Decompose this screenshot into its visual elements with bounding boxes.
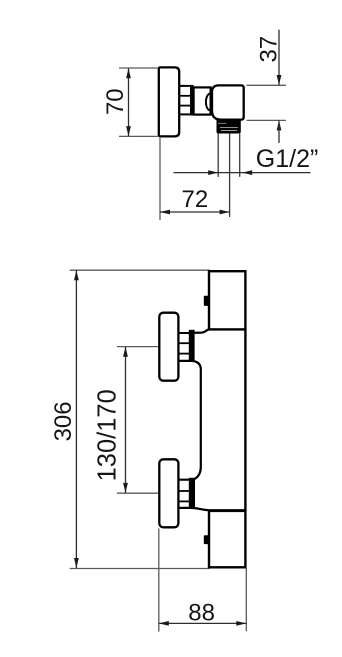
thread white line 1 [218, 122, 227, 124]
dim 88 arrow right [236, 621, 246, 626]
cylinder section [194, 87, 211, 114]
upper handle (front view) [159, 313, 178, 381]
dim 72 arrow left [160, 210, 170, 215]
upper stem rib end bar [189, 330, 195, 362]
dim 70 arrow down [126, 126, 131, 136]
dim 37 line lower [278, 120, 280, 143]
dim 130/170 extension line top [117, 346, 158, 348]
stem rib line 3 [179, 105, 190, 107]
dim 37 arrow down [277, 75, 282, 85]
svg-text:G1/2”: G1/2” [256, 145, 319, 173]
svg-text:37: 37 [256, 36, 283, 63]
dim 70 line [128, 68, 130, 136]
lower stem rib line 3 [179, 500, 189, 502]
upper stem rib line 1 [179, 332, 189, 334]
dim 72 extension line left [159, 138, 161, 220]
dim 306 arrow up [74, 270, 79, 280]
dim 306 line [75, 270, 77, 568]
dim 306 arrow down [74, 558, 79, 568]
outlet threads [217, 120, 241, 134]
dim 37 arrow up [277, 120, 282, 130]
dim 70 extension line bottom [119, 135, 158, 137]
dim 88 line [159, 622, 247, 624]
dim 88 extension line right [245, 569, 247, 632]
outlet pipe right edge [239, 134, 241, 177]
svg-text:88: 88 [188, 599, 215, 626]
stem rib end bar [190, 85, 194, 116]
outlet pipe center line [229, 134, 231, 218]
svg-text:130/170: 130/170 [94, 389, 122, 481]
lower stem rib line 2 [179, 490, 189, 492]
lower union block [209, 511, 245, 567]
dim 37 extension line bottom [247, 119, 287, 121]
dim 306 extension line top [70, 269, 210, 271]
upper union block [209, 271, 245, 329]
dim 37 extension line top [247, 84, 287, 86]
outlet pipe left edge [217, 134, 219, 177]
dim 130/170 line [125, 347, 127, 493]
lower block nub [204, 535, 210, 544]
valve face arc [206, 94, 210, 111]
dim 306 extension line bottom [70, 568, 210, 570]
svg-text:72: 72 [182, 186, 209, 213]
stem rib line 4 [179, 113, 190, 115]
dim G1/2 arrow right [208, 170, 218, 175]
dim 88 arrow left [159, 621, 169, 626]
dim 70 arrow up [126, 68, 131, 78]
upper block nub [204, 296, 210, 306]
thread white line 2 [220, 127, 238, 129]
dim 130/170 arrow down [123, 483, 128, 493]
stem rib line 1 [179, 85, 190, 87]
dim 37 line upper [278, 30, 280, 85]
lower stem bottom curve to block [179, 508, 245, 510]
upper step curve [194, 329, 210, 332]
dim G1/2 arrow left [242, 170, 252, 175]
dim 72 line [160, 211, 230, 213]
dim 130/170 arrow up [123, 347, 128, 357]
upper stem rib line 2 [179, 342, 189, 344]
dim 72 arrow right [220, 210, 230, 215]
body tube left edge [200, 370, 202, 467]
dim 88 extension line left [158, 529, 160, 632]
thread white line 3 [221, 130, 237, 132]
lower stem top curve from tube [179, 466, 201, 480]
dim 130/170 extension line bottom [117, 492, 158, 494]
upper stem rib line 3 [179, 353, 189, 355]
lower handle (front view) [159, 459, 178, 527]
dim 70 extension line top [119, 67, 158, 69]
handle (side view) [159, 67, 179, 136]
upper stem bottom curve into tube [179, 361, 201, 370]
wall bar right edge [244, 329, 246, 511]
svg-text:70: 70 [102, 88, 129, 115]
svg-text:306: 306 [50, 401, 77, 441]
stem rib line 2 [179, 95, 190, 97]
lower stem rib end bar [189, 478, 195, 509]
body (rounded block) [212, 85, 244, 119]
dim G1/2 leader line [173, 172, 310, 174]
